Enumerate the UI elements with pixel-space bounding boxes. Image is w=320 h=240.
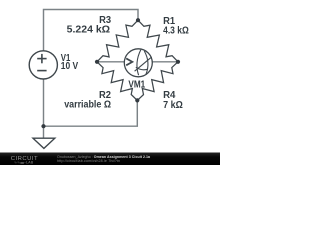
voltmeter VM1 <box>124 49 152 77</box>
svg-text:10 V: 10 V <box>61 61 78 72</box>
node bottom <box>135 98 139 102</box>
node right <box>176 60 180 64</box>
resistor R3 <box>97 20 138 62</box>
node top <box>136 18 140 22</box>
node ground junction <box>41 124 45 128</box>
resistor R4 <box>137 62 178 101</box>
ground <box>33 138 55 148</box>
svg-text:∿∿▬⎯LAB: ∿∿▬⎯LAB <box>14 161 34 165</box>
resistor R1 <box>138 20 178 62</box>
svg-text:4.3 kΩ: 4.3 kΩ <box>163 26 189 37</box>
wire top horizontal <box>44 10 139 51</box>
resistor R2 <box>97 62 137 101</box>
wire ground stem <box>43 126 45 137</box>
svg-text:VM1: VM1 <box>128 79 145 90</box>
voltage source V1 <box>29 51 57 79</box>
wire V1 bottom to ground junction <box>43 79 45 126</box>
svg-text:varriable Ω: varriable Ω <box>64 99 111 110</box>
node left <box>95 60 99 64</box>
wire mid right <box>152 61 178 63</box>
svg-text:7 kΩ: 7 kΩ <box>163 100 183 111</box>
wire bottom horizontal <box>44 100 138 126</box>
svg-text:5.224 kΩ: 5.224 kΩ <box>67 25 110 36</box>
wire mid left <box>97 61 124 63</box>
svg-text:http://circuitlab.com/csh28.le: http://circuitlab.com/csh28.le 7hd?tn <box>57 159 120 163</box>
